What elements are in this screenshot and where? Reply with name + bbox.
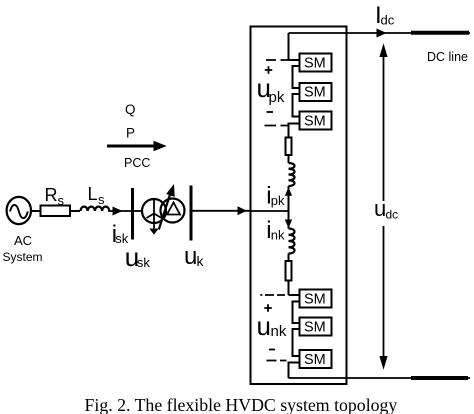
label AC System (3, 233, 43, 264)
svg-text:s: s (98, 192, 105, 207)
wire: stub to SM1 upper terminal (289, 59, 300, 61)
arm inductor (upper) (289, 163, 295, 186)
svg-text:s: s (58, 193, 65, 208)
svg-text:dc: dc (386, 208, 399, 222)
wire: bottom DC rail (289, 377, 471, 379)
label u_dc (374, 196, 398, 222)
resistor Rs (41, 206, 71, 217)
label u_k (184, 243, 205, 270)
label i_pk (266, 183, 285, 210)
current arrow I_dc (377, 29, 387, 38)
svg-text:Q: Q (125, 102, 136, 117)
wire: Rs to Ls (70, 210, 80, 212)
svg-text:SM: SM (304, 352, 326, 368)
arm resistor (upper) (286, 138, 292, 156)
wire: resistor to inductor (upper arm) (288, 155, 290, 163)
svg-text:System: System (3, 250, 43, 264)
label u_sk (125, 242, 151, 272)
submodule SM (lower arm #3) (300, 350, 332, 368)
svg-text:nk: nk (271, 323, 287, 340)
label + (lower arm) (264, 304, 272, 312)
svg-text:SM: SM (304, 85, 326, 101)
svg-text:u: u (184, 243, 197, 270)
current arrow into converter (238, 206, 247, 215)
current arrow i_sk (113, 207, 123, 216)
submodule SM (lower arm #2) (300, 318, 332, 336)
transformer T1 neutral arrow (149, 214, 158, 235)
svg-text:AC: AC (14, 233, 32, 248)
svg-text:k: k (197, 253, 205, 269)
arm inductor (lower) (289, 229, 295, 254)
label - (lower arm) (269, 349, 275, 351)
svg-text:R: R (45, 185, 58, 205)
wire: SM2 lower to SM3 upper link (293, 94, 300, 117)
label u_pk (257, 73, 285, 106)
power flow arrow (107, 141, 167, 151)
svg-text:pk: pk (271, 193, 285, 208)
label Ls (88, 184, 106, 207)
transformer T1 primary winding (Y) (142, 199, 166, 223)
current arrow i_pk (285, 187, 292, 196)
wire: AC phase into bridge (251, 210, 289, 212)
transformer T1 secondary winding (delta) (161, 199, 185, 223)
wire: Ls to u_sk bus (108, 210, 132, 212)
submodule SM (lower arm #1) (300, 290, 332, 308)
svg-text:SM: SM (304, 320, 326, 336)
svg-text:sk: sk (137, 255, 151, 270)
voltage arrow u_dc (upper segment) (379, 43, 387, 201)
wire: u_k to converter (193, 210, 251, 212)
node bus u_sk (131, 188, 134, 240)
wire: top DC rail (289, 32, 471, 34)
svg-text:nk: nk (271, 228, 285, 243)
label i_nk (266, 217, 285, 244)
wire: upper arm bus from DC rail (288, 33, 290, 60)
label u_nk (257, 311, 287, 341)
label i_sk (112, 221, 129, 248)
label - (upper arm) (267, 111, 274, 113)
voltage arrow u_dc (lower segment) (379, 226, 387, 370)
submodule SM (upper arm #3) (300, 112, 332, 130)
submodule SM (upper arm #1) (300, 54, 332, 72)
svg-text:pk: pk (269, 89, 285, 106)
arm resistor (lower) (286, 261, 292, 281)
svg-text:DC line: DC line (427, 50, 468, 64)
DC line thick segment (negative pole) (411, 376, 468, 380)
wire: AC source to Rs (31, 210, 41, 212)
label I_dc (375, 2, 395, 29)
svg-text:dc: dc (381, 12, 395, 27)
wire: u_sk bus to transformer (134, 210, 143, 212)
node bus u_k (190, 186, 193, 241)
svg-text:u: u (257, 311, 271, 341)
converter enclosure (251, 27, 347, 385)
wire: SM4 lower to SM5 upper link (293, 302, 300, 324)
svg-text:Fig. 2. The flexible HVDC sys: Fig. 2. The flexible HVDC system topolog… (85, 395, 398, 414)
AC source G1 (7, 197, 31, 224)
wire: SM3 lower terminal to arm bus (289, 124, 300, 138)
polarity dash-dot marks lower arm (top) (260, 294, 285, 296)
wire: inductor to phase node (upper arm) (288, 186, 290, 211)
transformer tap-changer arrow (159, 184, 175, 230)
svg-text:SM: SM (304, 56, 326, 72)
polarity dash marks upper arm (bottom) (265, 125, 288, 127)
label Rs (45, 185, 65, 208)
svg-text:SM: SM (304, 114, 326, 130)
submodule SM (upper arm #2) (300, 83, 332, 101)
polarity dash marks lower arm (bottom) (267, 360, 287, 362)
svg-text:L: L (88, 184, 98, 204)
svg-text:SM: SM (304, 292, 326, 308)
label + (upper arm) (265, 66, 273, 74)
svg-text:u: u (374, 196, 386, 221)
wire: SM1 lower to SM2 upper link (293, 66, 300, 88)
polarity dash marks upper arm (top) (266, 59, 289, 61)
DC line thick segment (positive pole) (411, 31, 469, 35)
wire: resistor to SM chain (lower arm) (288, 281, 290, 296)
wire: inductor to resistor (lower arm) (288, 254, 290, 262)
current arrow i_nk (285, 211, 292, 229)
wire: stub to SM4 upper terminal (289, 294, 300, 296)
wire: SM6 lower terminal to bottom rail (289, 363, 300, 379)
svg-text:PCC: PCC (124, 156, 150, 170)
inductor Ls (81, 207, 110, 211)
wire: SM5 lower to SM6 upper link (293, 329, 300, 356)
svg-text:P: P (126, 126, 135, 141)
